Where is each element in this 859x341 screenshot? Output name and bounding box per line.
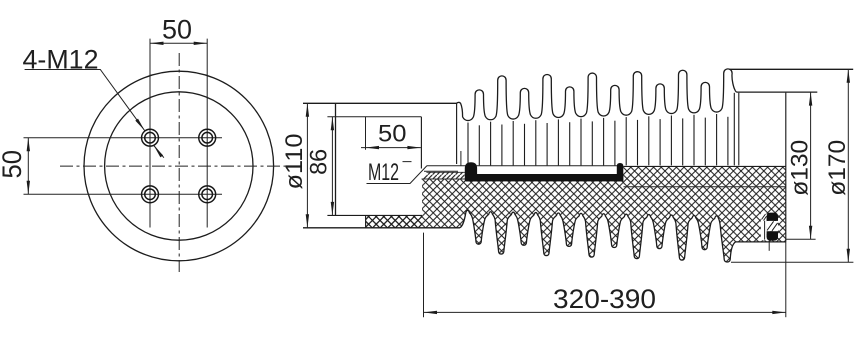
svg-text:ø170: ø170 <box>824 140 851 196</box>
svg-text:50: 50 <box>378 120 407 147</box>
hole axis line vertical left <box>149 39 151 228</box>
bolt hole top-right <box>199 129 216 146</box>
dimension 50 (left, hole spacing vertical) <box>0 138 28 195</box>
hole axis line horizontal top <box>24 137 223 139</box>
svg-text:M12: M12 <box>368 159 399 186</box>
o130 bottom extension <box>786 238 816 240</box>
label 4-M12 with leader <box>23 45 164 158</box>
gasket strip (diagonal hatch) <box>422 172 466 179</box>
svg-text:50: 50 <box>0 150 27 179</box>
bottom outline: band bottom + bottom sheds profile <box>303 210 786 262</box>
flange step small vertical <box>460 151 462 166</box>
sheds vertical lines <box>468 93 739 166</box>
svg-text:86: 86 <box>306 149 333 175</box>
gap band bottom line <box>424 170 458 172</box>
stud detail white mid band <box>767 221 778 231</box>
stud window hatch marks <box>767 221 778 231</box>
inner circle (bolt boss circle) <box>105 92 253 240</box>
main body cross-hatch (section, bottom half) <box>366 166 786 262</box>
flange left edge <box>335 103 337 215</box>
dimension o170 <box>824 69 851 262</box>
flange right edge <box>456 103 458 164</box>
dimension 50 (flange hole) <box>361 120 421 147</box>
top outline: flange top + shed profile + cap step <box>303 69 817 121</box>
svg-text:ø110: ø110 <box>281 134 308 190</box>
cap top line (o170 top extension) <box>729 68 853 70</box>
bolt hole top-left <box>142 129 159 146</box>
flange bottom ring cross-hatch <box>366 215 422 227</box>
gasket strip borders <box>422 172 467 179</box>
stud detail black base <box>767 231 778 240</box>
bore line in section <box>624 186 786 188</box>
flange band top line (86 bottom extension) <box>327 214 422 216</box>
label M12 with leader <box>367 159 428 186</box>
M12 hole right edge / body face <box>420 117 422 169</box>
dimension 320-390 <box>424 233 786 318</box>
horizontal centerline (dashed) <box>60 165 291 167</box>
o170 bottom extension <box>731 261 853 263</box>
bolt hole bottom-left <box>142 186 159 203</box>
M12 hole left extension line <box>365 117 367 150</box>
vertical centerline (dashed) <box>178 53 180 272</box>
dimension o130 <box>787 92 814 239</box>
svg-text:50: 50 <box>162 15 192 45</box>
dimension 50 (top, hole spacing horizontal) <box>150 15 207 45</box>
dimension o110 <box>281 103 308 228</box>
stud detail white slot <box>761 213 767 240</box>
dimension 86 <box>306 117 333 216</box>
hole axis line vertical right <box>206 39 208 228</box>
flange band left edge <box>365 215 367 227</box>
hole axis line horizontal bottom <box>24 193 223 195</box>
body right face <box>785 93 787 242</box>
M12 hole top line (86 top extension) <box>327 116 421 118</box>
outer circle (flange OD) <box>84 71 274 261</box>
stud slot line <box>764 221 766 240</box>
hatch top edge right of bar <box>623 165 786 167</box>
stud slot hatch marks <box>762 214 767 221</box>
half-section divider thin line <box>427 165 617 167</box>
stud detail black head <box>767 213 778 221</box>
svg-text:320-390: 320-390 <box>553 284 656 314</box>
svg-text:ø130: ø130 <box>787 140 814 196</box>
conductor bar (black) <box>465 162 624 181</box>
arrowheads <box>150 42 164 45</box>
stud centerline below <box>768 241 770 251</box>
bolt hole bottom-right <box>199 186 216 203</box>
